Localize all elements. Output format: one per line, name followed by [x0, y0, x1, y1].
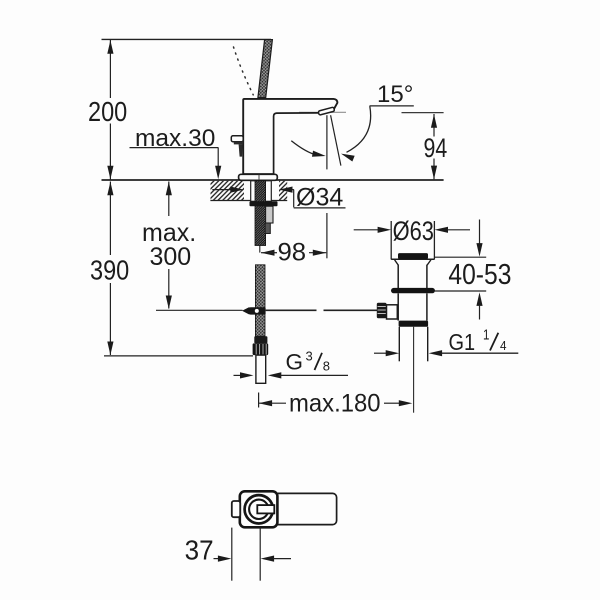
outlet reference line lower segment	[326, 213, 328, 258]
shank outer tube through counter	[251, 181, 272, 202]
drain rod clamp knob	[377, 303, 398, 319]
svg-text:max.180: max.180	[289, 390, 381, 418]
dimension 390 vertical line	[107, 182, 113, 356]
94 outlet extension line grey segment	[299, 111, 346, 113]
drain neck taper	[395, 260, 431, 265]
max.30 leader underline	[130, 147, 219, 149]
svg-text:94: 94	[424, 134, 448, 164]
handle detail: outer logo circle	[245, 495, 273, 523]
Ø34 underline	[294, 207, 346, 209]
dimension Ø34 arrows	[212, 187, 294, 208]
dimension 200 vertical line	[107, 40, 113, 180]
hose nut (knurled)	[253, 343, 269, 355]
svg-text:8: 8	[323, 358, 330, 373]
lever travel dashed line	[234, 47, 254, 95]
drain lower cylinder	[398, 293, 427, 320]
dimension max.300 vertical line	[166, 182, 172, 310]
drain pipe centerline	[413, 327, 415, 413]
dimension G3/8 arrows at hose end	[234, 372, 349, 378]
svg-text:1: 1	[483, 326, 489, 343]
15 degree left arc with arrow	[291, 141, 326, 159]
pop-up rod joint	[242, 307, 266, 315]
drain bottom nut band	[399, 321, 429, 327]
svg-text:37: 37	[185, 535, 214, 566]
hose collar	[254, 336, 267, 343]
15 degree right arc with arrow	[340, 106, 371, 161]
max.30 arrow down to counter	[215, 148, 221, 180]
svg-text:G1: G1	[449, 328, 476, 355]
15 degree slanted line	[331, 115, 341, 165]
faucet body outline	[243, 99, 337, 174]
dimension max.180	[259, 393, 413, 408]
svg-text:390: 390	[90, 256, 129, 286]
svg-text:Ø63: Ø63	[393, 217, 434, 247]
braided supply hose	[255, 265, 265, 336]
15 degree label underline	[370, 105, 414, 107]
thin rod below shank	[259, 246, 261, 253]
label G3/8	[286, 348, 331, 374]
drain flange shoulder	[391, 258, 434, 260]
dimension 94 vertical line	[431, 114, 437, 179]
handle detail: body square	[240, 491, 278, 527]
handle detail: logo slot bar	[257, 505, 274, 513]
mounting sleeve lower	[265, 223, 270, 234]
handle detail: side tab	[232, 501, 240, 517]
drain Ø63 extension lines	[391, 221, 434, 260]
svg-text:200: 200	[88, 97, 127, 127]
drain tail pipe	[399, 327, 427, 362]
pop-up rod	[156, 309, 377, 311]
dimension 37	[214, 556, 292, 562]
pop-up knob on body left	[231, 136, 243, 157]
drain upper cylinder	[398, 265, 427, 289]
svg-text:4: 4	[500, 338, 507, 353]
390 bottom extension line	[104, 355, 253, 357]
label G1 1/4	[449, 326, 507, 355]
37 extension lines	[232, 528, 260, 581]
dimension 40-53	[434, 220, 486, 320]
faucet base plate	[239, 174, 278, 180]
counter cross-section left (hatched)	[210, 181, 287, 201]
svg-text:40-53: 40-53	[448, 258, 511, 290]
threaded shank rod	[255, 181, 266, 246]
hose end tube G3/8	[256, 355, 266, 383]
dimension G1 1/4	[374, 350, 518, 356]
drain flange black cap	[398, 253, 428, 259]
dimension Ø63	[354, 227, 470, 233]
svg-text:98: 98	[278, 239, 307, 267]
faucet aerator tip	[318, 107, 335, 115]
handle detail: inner logo circle	[249, 500, 268, 519]
svg-text:15°: 15°	[377, 81, 413, 108]
15 degree reference vertical line	[326, 115, 328, 169]
svg-text:3: 3	[306, 348, 313, 363]
mounting sleeve grey	[266, 206, 273, 223]
handle detail: lever bar	[260, 493, 337, 524]
svg-text:300: 300	[150, 243, 192, 271]
faucet lever (hatched)	[258, 40, 273, 98]
dimension 98	[261, 250, 326, 256]
drain o-ring	[391, 288, 435, 293]
94 outlet extension line dark segment	[402, 112, 444, 114]
svg-text:Ø34: Ø34	[296, 184, 343, 212]
countertop line	[102, 179, 444, 181]
mounting washer	[250, 201, 278, 206]
svg-text:G: G	[286, 349, 304, 374]
extension line top (lever tip level)	[102, 38, 272, 40]
